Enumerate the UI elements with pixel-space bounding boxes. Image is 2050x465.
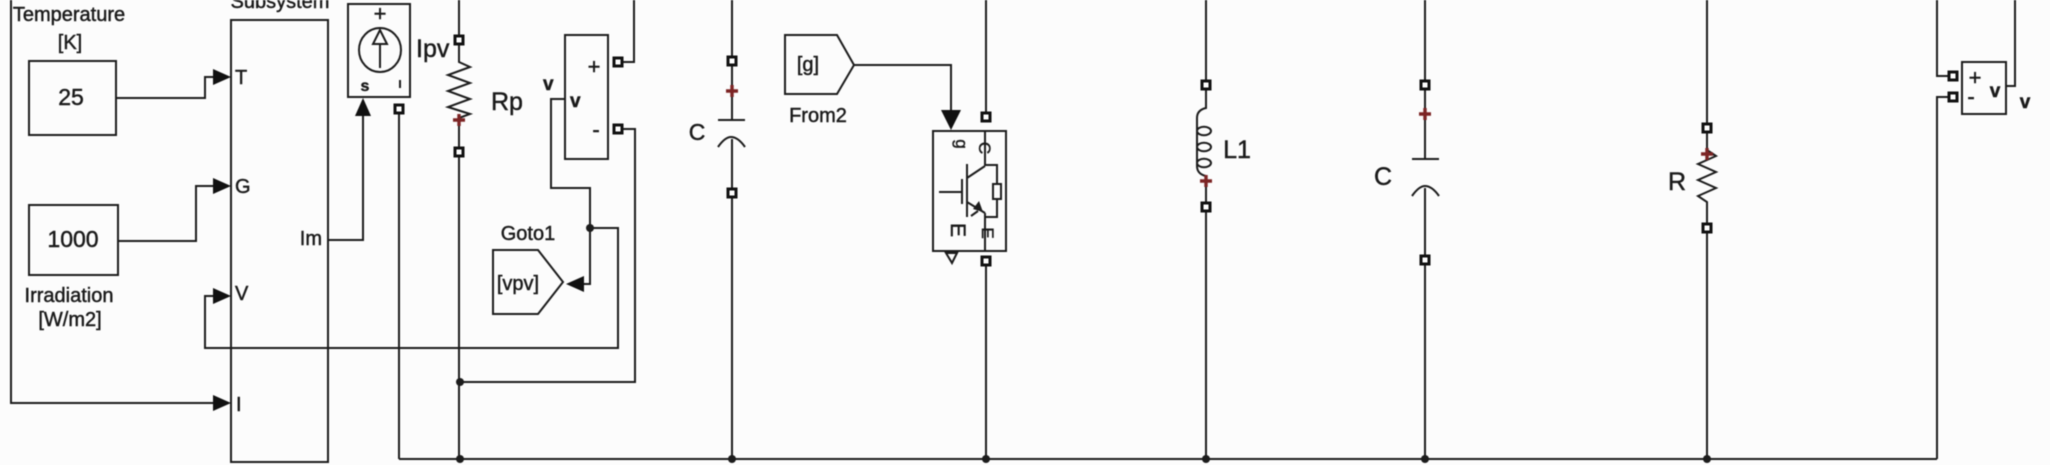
constant block 1000 <box>29 205 118 275</box>
plus mark C2 <box>1419 108 1431 120</box>
resistor Rp top wire <box>458 0 460 37</box>
wire VM2 output v up <box>2006 0 2015 86</box>
port IGBT E <box>982 257 990 265</box>
capacitor C1 bottom wire <box>731 139 733 459</box>
svg-text:L1: L1 <box>1223 136 1251 164</box>
node IGBT-bus <box>982 455 990 463</box>
IGBT gate lead <box>939 191 961 193</box>
svg-text:V: V <box>235 283 249 305</box>
svg-text:Ipv: Ipv <box>416 35 450 63</box>
wire junction to subsystem V port <box>205 228 618 348</box>
wire V1 plus port up <box>622 0 634 62</box>
node Rp-bus <box>456 455 464 463</box>
port IGBT C <box>982 113 990 121</box>
current source arrow shaft <box>379 44 381 68</box>
port VM2 plus <box>1949 72 1957 80</box>
wire V1 minus port down to node <box>460 129 635 382</box>
plus mark L1 <box>1200 175 1212 187</box>
IGBT emitter vertical <box>984 213 986 251</box>
IGBT gate bar <box>961 179 963 204</box>
plus mark R <box>1701 148 1713 160</box>
IGBT collector diagonal <box>967 166 985 178</box>
port squares <box>395 36 1957 265</box>
port arrowheads <box>213 69 961 411</box>
arrow left into Goto1 <box>566 276 584 292</box>
resistor R bottom wire <box>1706 232 1708 459</box>
IGBT Q1 box <box>933 131 1006 251</box>
IGBT m port triangle <box>946 253 957 263</box>
inductor L1 loop 2 <box>1197 143 1211 151</box>
inductor L1 bottom hook <box>1197 166 1206 203</box>
IGBT emitter arrow slash <box>971 211 978 216</box>
wire IGBT emitter down to bus <box>985 265 987 459</box>
IGBT body bar <box>966 164 968 217</box>
svg-text:Im: Im <box>300 228 322 250</box>
capacitor C1 flat plate <box>718 119 745 121</box>
From2 tag shape <box>785 35 854 94</box>
arrow down into g <box>941 110 961 130</box>
svg-text:-: - <box>592 117 599 142</box>
arrow into T <box>213 69 231 85</box>
capacitor C2 top wire <box>1424 0 1426 159</box>
resistor Rp bottom wire <box>458 156 460 459</box>
svg-text:From2: From2 <box>789 105 847 127</box>
current source circle <box>359 28 401 72</box>
port Rp bottom <box>455 148 463 156</box>
port Rp top <box>455 36 463 44</box>
wire current source i terminal down to bus <box>398 113 400 459</box>
capacitor C2 bottom wire <box>1424 188 1426 459</box>
red polarity marks <box>453 85 1713 187</box>
bottom bus wire <box>399 458 1937 460</box>
resistor Rp body zigzag <box>448 44 470 148</box>
svg-text:Subsystem: Subsystem <box>231 0 330 13</box>
svg-text:T: T <box>235 67 247 89</box>
svg-text:-: - <box>1967 84 1974 109</box>
port C2 bottom <box>1421 256 1429 264</box>
current source i terminal dash <box>399 80 401 88</box>
port V1 minus <box>614 125 622 133</box>
capacitor C2 flat plate <box>1412 158 1439 160</box>
svg-text:Rp: Rp <box>491 88 523 116</box>
inductor L1 loop 3 <box>1197 159 1211 167</box>
svg-text:E: E <box>946 223 969 237</box>
wire junction down to Goto1 <box>584 228 590 284</box>
current source arrow head <box>373 30 387 44</box>
inductor L1 top hook <box>1197 89 1206 118</box>
voltage measurement V2 box <box>1962 62 2006 114</box>
capacitor C1 top wire <box>731 0 733 120</box>
IGBT right branch top <box>985 165 997 184</box>
svg-text:+: + <box>588 54 601 79</box>
wire From2 to IGBT gate <box>854 65 951 112</box>
IGBT collector vertical <box>984 131 986 166</box>
resistor R body zigzag <box>1698 132 1716 224</box>
subsystem block <box>231 20 328 462</box>
svg-text:Goto1: Goto1 <box>501 223 555 245</box>
svg-text:25: 25 <box>58 84 84 110</box>
inductor L1 axis line <box>1196 118 1198 166</box>
resistor R top wire <box>1706 0 1708 125</box>
svg-text:s: s <box>361 78 370 95</box>
capacitor C1 curved plate <box>718 137 745 147</box>
arrow up into s <box>355 98 371 116</box>
node R-bus <box>1703 455 1711 463</box>
svg-text:Temperature: Temperature <box>13 4 125 26</box>
svg-text:v: v <box>570 91 581 112</box>
svg-text:Irradiation: Irradiation <box>25 285 114 307</box>
wire feedback into I port <box>11 0 214 403</box>
svg-text:g: g <box>952 139 971 148</box>
wire Im to current source s input <box>328 116 363 240</box>
port L1 top <box>1202 81 1210 89</box>
controlled current source U1 box <box>348 4 410 97</box>
IGBT emitter diagonal <box>967 202 985 213</box>
svg-text:[g]: [g] <box>797 54 819 76</box>
svg-text:C: C <box>975 142 994 154</box>
plus mark Rp <box>453 114 465 126</box>
port R top <box>1703 124 1711 132</box>
wire VM2 minus down to bus <box>1937 97 1949 459</box>
constant block 25 <box>29 61 116 135</box>
node L1-bus <box>1202 455 1210 463</box>
svg-text:+: + <box>374 1 387 26</box>
svg-text:C: C <box>1374 163 1392 191</box>
arrow into I <box>213 395 231 411</box>
port L1 bottom <box>1202 203 1210 211</box>
svg-text:v: v <box>1990 81 2001 102</box>
svg-text:I: I <box>236 394 242 416</box>
arrow into V <box>213 288 231 304</box>
IGBT diode rect <box>993 184 1001 199</box>
svg-text:E: E <box>978 227 997 238</box>
arrow into G <box>213 178 231 194</box>
svg-text:G: G <box>235 176 251 198</box>
capacitor C2 curved plate <box>1412 186 1439 196</box>
IGBT right branch bottom <box>985 199 997 217</box>
port C1 bottom <box>728 189 736 197</box>
node C1-bus <box>728 455 736 463</box>
wire IGBT collector up <box>985 0 987 114</box>
svg-text:v: v <box>2020 92 2031 113</box>
port VM2 minus <box>1949 93 1957 101</box>
svg-text:[W/m2]: [W/m2] <box>38 309 101 331</box>
inductor L1 bottom wire <box>1205 212 1207 459</box>
node C2-bus <box>1421 455 1429 463</box>
inductor L1 top wire <box>1205 0 1207 82</box>
node Vm1 minus <box>456 378 464 386</box>
IGBT emitter arrow <box>973 201 983 212</box>
wire 1000 to G <box>118 186 214 241</box>
svg-text:1000: 1000 <box>47 226 98 252</box>
svg-text:C: C <box>689 119 706 145</box>
node v branch <box>586 224 594 232</box>
port V1 plus <box>614 58 622 66</box>
svg-text:[vpv]: [vpv] <box>497 273 539 295</box>
plus mark C1 <box>726 85 738 97</box>
svg-text:[K]: [K] <box>58 32 82 54</box>
svg-text:v: v <box>543 74 554 95</box>
port current source i <box>395 105 403 113</box>
wire VM2 plus from top <box>1937 0 1949 76</box>
port C1 top <box>728 57 736 65</box>
svg-text:R: R <box>1668 168 1686 196</box>
wire V1 output v to junction <box>551 99 590 228</box>
voltage measurement V1 box <box>565 35 608 159</box>
wire 25 to T <box>116 77 214 98</box>
port R bottom <box>1703 224 1711 232</box>
port C2 top <box>1421 81 1429 89</box>
Goto1 tag shape <box>493 250 563 314</box>
inductor L1 loop 1 <box>1197 127 1211 135</box>
